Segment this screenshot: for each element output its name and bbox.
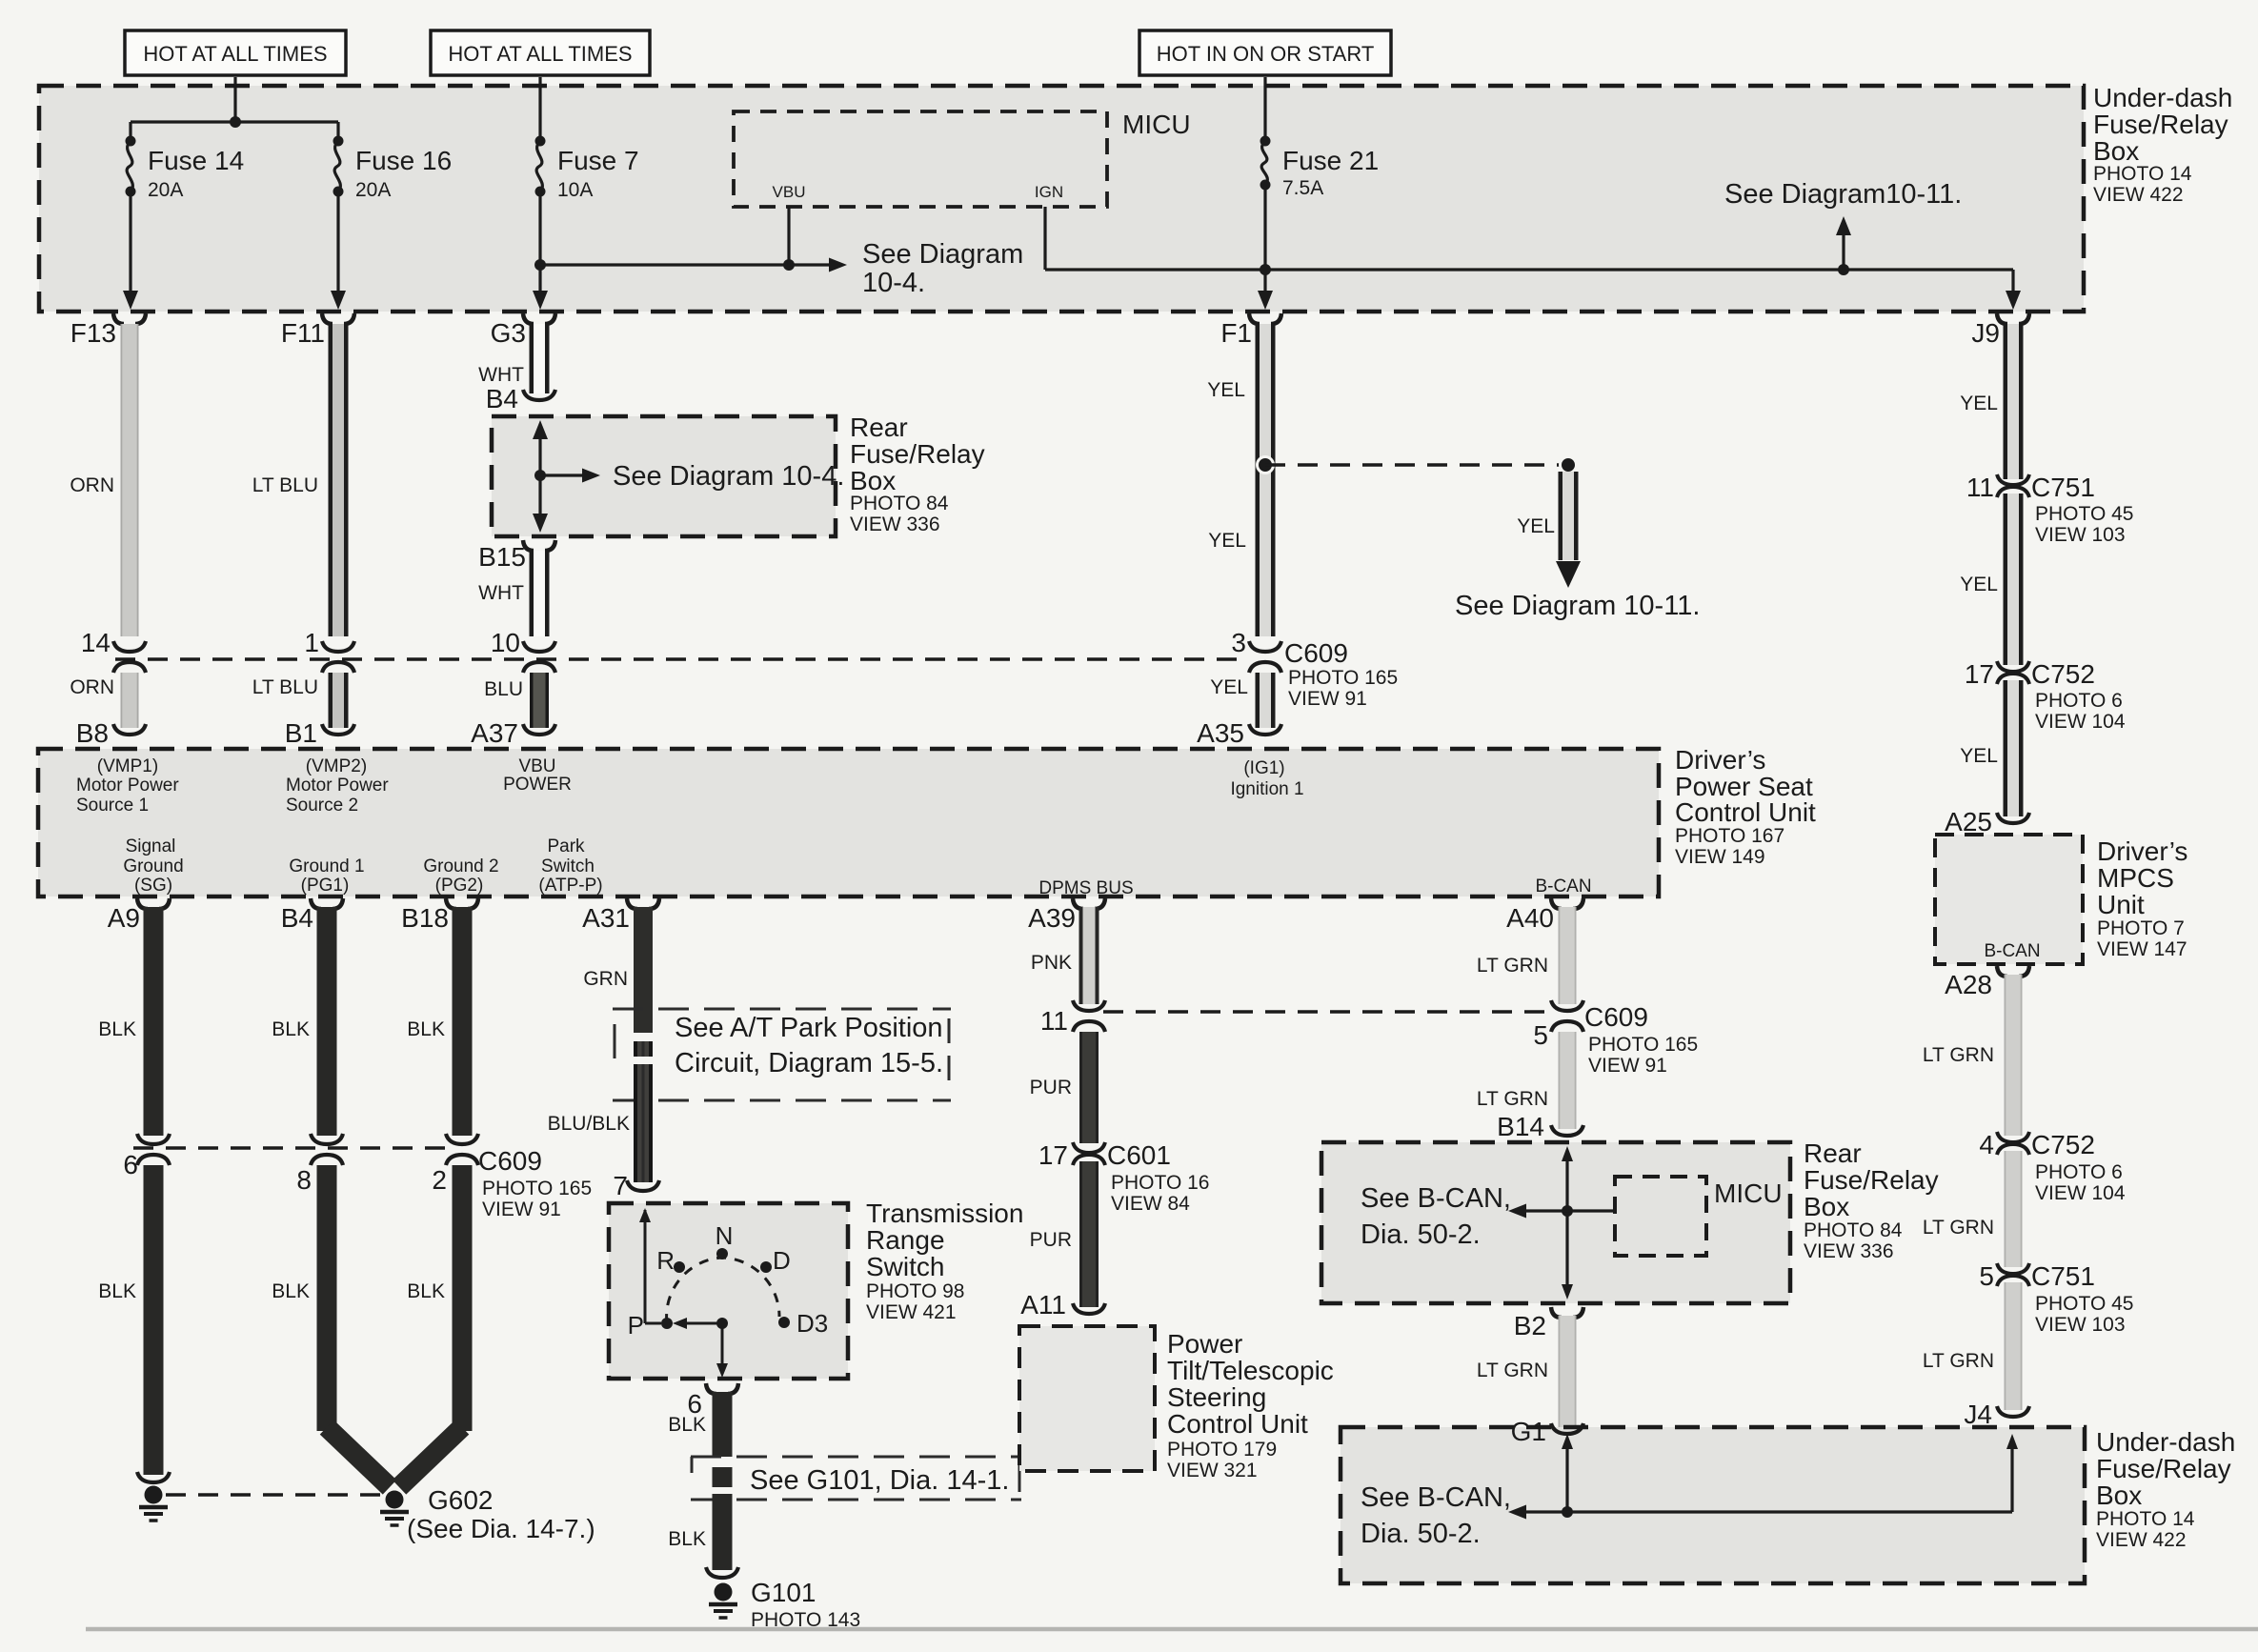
wire bottom box bus [1508,1505,2012,1520]
pin 14 C609 [81,628,146,673]
svg-text:10-4.: 10-4. [862,268,925,298]
TRS contact N [716,1221,734,1259]
svg-text:D3: D3 [796,1309,828,1338]
wire A9 BLK lower [144,1165,164,1475]
see diagram 10-11 note (lower) [1455,591,1700,621]
wire A9 BLK upper [144,907,164,1136]
wire B4 BLK upper [317,907,337,1136]
wire label BLK A9 (upper) [98,1018,136,1040]
wire label WHT (lower) [478,582,524,604]
svg-text:10: 10 [491,628,520,657]
wire G1 arrow (bottom box) [1562,1434,1573,1512]
svg-text:PHOTO 84: PHOTO 84 [850,493,949,514]
svg-text:Range: Range [866,1225,945,1255]
junction YEL arrow tap [1561,457,1577,473]
svg-text:Under-dash: Under-dash [2096,1427,2235,1457]
wire F11 LT BLU upper [329,324,349,636]
svg-text:VIEW 91: VIEW 91 [1288,688,1367,710]
svg-text:2: 2 [432,1165,447,1195]
svg-text:D: D [773,1246,791,1275]
see B-CAN note (bottom box) [1361,1482,1511,1549]
svg-text:BLK: BLK [272,1280,310,1302]
rear fuse/relay box (lower) [1321,1142,1790,1303]
transmission range switch label [866,1199,1023,1323]
svg-text:R: R [656,1246,675,1275]
wire fuse7 tap to VBU [540,263,789,266]
svg-text:See Diagram10-11.: See Diagram10-11. [1724,179,1962,210]
connector C601 pin 17 [1038,1140,1210,1215]
wire hot1 feed stub [233,77,236,122]
svg-text:Ground: Ground [123,856,183,876]
svg-text:VIEW 149: VIEW 149 [1675,846,1765,868]
pin 1 C609 [304,628,354,673]
svg-text:C751: C751 [2031,473,2095,502]
pin function DPMS BUS [1038,878,1133,898]
svg-text:PHOTO 14: PHOTO 14 [2096,1508,2195,1530]
svg-text:Fuse 7: Fuse 7 [557,146,639,175]
pin B18 [401,898,478,933]
see A/T park position circuit note [675,1013,943,1078]
junction fuse7 tap [534,259,546,271]
TRS rotor arc [667,1258,779,1323]
svg-text:11: 11 [1040,1006,1068,1036]
svg-text:PHOTO 6: PHOTO 6 [2035,1161,2123,1183]
wire label YEL (drop) [1517,515,1555,537]
wire rear tap line [1508,1204,1615,1219]
wire F13 ORN upper [121,324,139,636]
svg-text:20A: 20A [148,179,183,201]
svg-text:LT GRN: LT GRN [1923,1217,1994,1239]
power tilt/telescopic label [1167,1329,1334,1481]
wire B18 BLK lower [399,1165,473,1487]
pin B15 [478,540,555,572]
svg-text:G602: G602 [428,1485,494,1515]
wire J9 YEL mid [2004,494,2024,665]
dashed ground link [166,1493,383,1496]
wire MICU VBU lead [787,207,790,265]
wire label WHT (upper) [478,364,524,386]
wire fuse16 lower lead [336,191,339,297]
wire label BLK B4 (upper) [272,1018,310,1040]
fuse F21 [1260,136,1271,191]
svg-text:5: 5 [1533,1020,1548,1050]
pin function B-CAN (MPCS) [1984,941,2040,961]
svg-text:VIEW 336: VIEW 336 [850,514,940,535]
svg-text:PHOTO 167: PHOTO 167 [1675,825,1784,847]
svg-text:BLK: BLK [98,1018,136,1040]
svg-text:Driver’s: Driver’s [1675,745,1765,775]
svg-text:BLK: BLK [407,1018,445,1040]
svg-text:B8: B8 [76,718,109,748]
svg-text:C609: C609 [1284,638,1348,668]
svg-text:PHOTO 7: PHOTO 7 [2097,917,2185,939]
svg-text:VIEW 422: VIEW 422 [2096,1529,2187,1551]
wire label BLK G101 (lower) [668,1528,706,1550]
fuse F16 [333,136,344,197]
driver's power seat control unit box [38,749,1659,897]
wire hot2 feed stub [538,77,541,139]
driver's MPCS unit box [1935,835,2083,964]
wire right LTGRN lower [2005,1282,2023,1410]
MICU label (top) [1122,110,1191,139]
wire A39 PUR upper [1079,1032,1099,1143]
svg-text:Dia. 50-2.: Dia. 50-2. [1361,1519,1481,1549]
see diagram 10-4 note (top box) [862,239,1023,298]
wire right LTGRN mid [2005,1151,2023,1267]
svg-text:Transmission: Transmission [866,1199,1023,1228]
svg-text:Box: Box [850,466,896,495]
wire B18 BLK upper [453,907,473,1136]
wire label PUR (upper) [1030,1077,1072,1098]
MICU label (lower) [1714,1179,1783,1208]
svg-text:B15: B15 [478,542,526,572]
svg-text:YEL: YEL [1207,379,1245,401]
pin B4 rear box [486,384,555,413]
pin A11 [1020,1290,1105,1320]
pin function Ground 1 (PG1) [289,856,364,896]
svg-text:YEL: YEL [1960,574,1998,595]
wire fuse16 upper lead [336,122,339,139]
wire TRS6 BLK upper [713,1392,733,1457]
wire label LT GRN (right lower) [1923,1350,1994,1372]
pin function (VMP2) Motor Power Source 2 [286,756,389,816]
pin B2 [1514,1307,1583,1340]
TRS contact R [656,1246,685,1275]
dashed tap line to YEL arrow [1265,463,1568,466]
svg-text:HOT IN ON OR START: HOT IN ON OR START [1157,42,1375,66]
wire B2 LTGRN [1559,1316,1577,1427]
svg-text:4: 4 [1979,1130,1994,1159]
wire label PNK [1031,952,1072,974]
svg-text:VIEW 421: VIEW 421 [866,1301,957,1323]
svg-text:PHOTO 165: PHOTO 165 [482,1178,592,1199]
svg-text:LT GRN: LT GRN [1923,1350,1994,1372]
wire see-10-11 arrow [1836,216,1851,270]
svg-text:PHOTO 98: PHOTO 98 [866,1280,964,1302]
svg-text:A35: A35 [1197,718,1244,748]
junction rear box (lower) tap [1562,1205,1573,1217]
svg-text:VIEW 103: VIEW 103 [2035,524,2126,546]
svg-text:A37: A37 [471,718,518,748]
fuse F14 value label [148,146,244,201]
wire A39 PUR lower [1079,1161,1099,1307]
wire label GRN [583,968,628,990]
svg-text:BLK: BLK [668,1528,706,1550]
pin F13 [71,313,146,348]
arrow fuse16 to F11 [331,291,346,310]
svg-text:Ground 2: Ground 2 [423,856,498,876]
wire fuse14 lower lead [129,191,131,297]
svg-text:14: 14 [81,628,111,657]
svg-text:PHOTO 16: PHOTO 16 [1111,1172,1209,1194]
wire J4 arrow [2006,1434,2018,1512]
svg-text:Rear: Rear [1804,1138,1862,1168]
svg-text:B4: B4 [281,903,313,933]
svg-text:LT BLU: LT BLU [252,676,318,698]
svg-text:G1: G1 [1511,1417,1546,1446]
svg-text:VIEW 104: VIEW 104 [2035,1182,2126,1204]
arrow fuse14 to F13 [123,291,138,310]
svg-text:Circuit, Diagram 15-5.: Circuit, Diagram 15-5. [675,1048,943,1078]
pin F1 [1220,313,1281,348]
fuse F21 value label [1282,146,1379,199]
svg-text:VIEW 103: VIEW 103 [2035,1314,2126,1336]
svg-text:Ignition 1: Ignition 1 [1230,779,1303,799]
wire label BLU/BLK [548,1113,630,1135]
svg-text:GRN: GRN [583,968,628,990]
svg-text:HOT AT ALL TIMES: HOT AT ALL TIMES [448,42,632,66]
svg-text:Unit: Unit [2097,890,2145,919]
junction rear box tap [534,470,546,481]
svg-text:YEL: YEL [1210,676,1248,698]
wire A39 PNK [1079,907,1099,1004]
wire label ORN (upper) [70,474,114,496]
svg-text:Switch: Switch [866,1252,944,1281]
pin 6 C609 [123,1134,170,1179]
svg-text:PHOTO 165: PHOTO 165 [1588,1034,1698,1056]
svg-text:VIEW 91: VIEW 91 [482,1199,561,1220]
wire fuse21 lower lead [1263,185,1266,297]
pin A39 [1028,898,1105,933]
svg-text:7.5A: 7.5A [1282,177,1323,199]
svg-text:Box: Box [2093,136,2139,166]
wire G101 through-box segment [713,1467,733,1487]
svg-text:A28: A28 [1945,970,1992,999]
svg-text:YEL: YEL [1208,530,1246,552]
svg-text:BLU/BLK: BLU/BLK [548,1113,630,1135]
svg-text:(VMP1): (VMP1) [97,756,158,776]
wire label BLK B18 (upper) [407,1018,445,1040]
svg-text:C609: C609 [1584,1002,1648,1032]
label box HOT AT ALL TIMES (fuse 7 feed) [431,30,650,75]
wire label LT GRN (B14) [1477,1088,1548,1110]
wire label BLK A9 (lower) [98,1280,136,1302]
svg-text:C752: C752 [2031,1130,2095,1159]
power seat unit label [1675,745,1816,868]
svg-text:Fuse 16: Fuse 16 [355,146,452,175]
svg-text:10A: 10A [557,179,593,201]
svg-text:POWER: POWER [503,775,572,795]
svg-text:VIEW 104: VIEW 104 [2035,711,2126,733]
wire label LT BLU (upper) [252,474,318,496]
svg-text:BLK: BLK [98,1280,136,1302]
pin function Park Switch (ATP-P) [538,836,602,896]
wire rear box feed arrows [533,420,548,533]
pin 6 TRS [687,1383,738,1419]
pin function (VMP1) Motor Power Source 1 [76,756,179,816]
see diagram 10-4 note (rear box) [613,461,844,492]
junction fuse21 bus [1260,264,1271,275]
wire F1 YEL upper [1256,324,1276,636]
pin function B-CAN (seat unit) [1535,876,1591,897]
under-dash fuse/relay box label [2093,83,2232,206]
svg-text:Motor Power: Motor Power [286,776,389,796]
svg-text:G3: G3 [491,318,526,348]
svg-text:Fuse/Relay: Fuse/Relay [2096,1454,2231,1483]
rear fuse/relay box (lower) label [1804,1138,1939,1262]
svg-text:A25: A25 [1945,807,1992,836]
svg-text:BLU: BLU [484,678,523,700]
wire label BLK TRS (upper) [668,1414,706,1436]
pin B14 [1497,1112,1583,1141]
svg-text:(IG1): (IG1) [1243,758,1284,778]
svg-text:PHOTO 84: PHOTO 84 [1804,1219,1903,1241]
svg-text:PHOTO 179: PHOTO 179 [1167,1439,1277,1461]
svg-text:YEL: YEL [1517,515,1555,537]
connector C752 pin 4 [1979,1130,2125,1204]
connector C609 (lower) label [478,1146,592,1220]
arrow to J9 [2006,291,2021,310]
wire label BLK B18 (lower) [407,1280,445,1302]
svg-text:(See Dia. 14-7.): (See Dia. 14-7.) [407,1514,595,1543]
junction see-10-11 tap [1838,264,1849,275]
svg-text:7: 7 [613,1171,628,1200]
wire G3 WHT [530,324,550,393]
wire A37 BLU [530,673,549,728]
svg-text:VIEW 91: VIEW 91 [1588,1055,1667,1077]
svg-text:VIEW 84: VIEW 84 [1111,1193,1190,1215]
under-dash fuse/relay box (bottom) [1341,1427,2085,1583]
wire J9 YEL upper [2004,324,2024,479]
wire G101 BLK lower [713,1494,733,1570]
svg-text:See B-CAN,: See B-CAN, [1361,1183,1511,1214]
svg-text:Fuse 21: Fuse 21 [1282,146,1379,175]
svg-text:VBU: VBU [518,756,555,776]
ground G602 label [407,1485,595,1543]
junction bottom box [1562,1506,1573,1518]
ground G602 [380,1491,409,1526]
svg-text:VBU: VBU [773,183,806,201]
svg-text:VIEW 321: VIEW 321 [1167,1460,1258,1481]
svg-text:ORN: ORN [70,676,114,698]
svg-text:LT GRN: LT GRN [1477,1360,1548,1381]
connector C609 line (upper) [115,657,1244,660]
pin B4 (ground 1) [281,898,343,933]
svg-text:Driver’s: Driver’s [2097,836,2187,866]
wire label BLU [484,678,523,700]
pin A31 [582,898,659,933]
under-dash (bottom) label [2096,1427,2235,1551]
connector C751 pin 11 [1966,473,2134,546]
MICU box (top) [734,111,1107,207]
wire B15 WHT [530,551,550,636]
wire B1 LT BLU [329,673,349,728]
arrow fuse7 to G3 [533,291,548,310]
svg-text:PUR: PUR [1030,1077,1072,1098]
svg-text:Tilt/Telescopic: Tilt/Telescopic [1167,1356,1334,1385]
svg-text:VIEW 147: VIEW 147 [2097,938,2187,960]
pin A40 [1506,898,1583,933]
pin function Ground 2 (PG2) [423,856,498,896]
svg-text:PHOTO 14: PHOTO 14 [2093,163,2192,185]
pin J9 [1971,313,2029,348]
svg-text:BLK: BLK [272,1018,310,1040]
wire label YEL (F1 top) [1207,379,1245,401]
connector C609 (pins 11/5) label [1584,1002,1698,1077]
svg-text:Source 1: Source 1 [76,796,149,816]
svg-text:Fuse/Relay: Fuse/Relay [1804,1165,1939,1195]
svg-text:8: 8 [296,1165,312,1195]
svg-text:J9: J9 [1971,318,2000,348]
svg-text:C751: C751 [2031,1261,2095,1291]
see A/T park position circuit box [613,1009,951,1100]
ground G101 label [751,1578,860,1631]
svg-text:PHOTO 6: PHOTO 6 [2035,690,2123,712]
svg-text:B4: B4 [486,384,518,413]
wire label BLK B4 (lower) [272,1280,310,1302]
svg-text:Steering: Steering [1167,1382,1266,1412]
svg-text:Fuse/Relay: Fuse/Relay [850,439,985,469]
svg-text:HOT AT ALL TIMES: HOT AT ALL TIMES [143,42,327,66]
page bottom rule [86,1627,2258,1632]
svg-text:A9: A9 [108,903,140,933]
pin A9 [108,898,170,933]
svg-text:5: 5 [1979,1261,1994,1291]
wire label PUR (lower) [1030,1229,1072,1251]
svg-text:G101: G101 [751,1578,817,1607]
junction F1 YEL tap [1258,457,1274,473]
pin 3 C609 [1231,628,1281,673]
svg-text:YEL: YEL [1960,745,1998,767]
power tilt/telescopic steering control unit box [1019,1326,1155,1471]
svg-text:PNK: PNK [1031,952,1072,974]
wire label YEL (J9 mid) [1960,574,1998,595]
ground G101 [706,1567,738,1618]
svg-text:WHT: WHT [478,364,524,386]
MICU pin IGN label [1035,183,1063,201]
svg-text:C752: C752 [2031,659,2095,689]
svg-text:Dia. 50-2.: Dia. 50-2. [1361,1219,1481,1250]
wire label LT GRN (A28) [1923,1044,1994,1066]
wire fuse7 lower lead [538,191,541,297]
svg-text:Under-dash: Under-dash [2093,83,2232,112]
label box HOT IN ON OR START (fuse 21 feed) [1139,30,1391,75]
pin G1 [1511,1417,1583,1446]
TRS contact D [760,1246,791,1275]
svg-text:A39: A39 [1028,903,1076,933]
svg-text:Control Unit: Control Unit [1167,1409,1308,1439]
TRS contact P [628,1311,673,1340]
svg-text:Power: Power [1167,1329,1242,1359]
svg-text:LT GRN: LT GRN [1923,1044,1994,1066]
svg-text:N: N [716,1221,734,1250]
svg-text:Source 2: Source 2 [286,796,358,816]
svg-text:Fuse 14: Fuse 14 [148,146,244,175]
wire label YEL (J9 upper) [1960,393,1998,414]
svg-text:J4: J4 [1964,1400,1992,1429]
svg-text:(VMP2): (VMP2) [306,756,367,776]
wire hot3 feed stub [1263,77,1266,139]
svg-text:Motor Power: Motor Power [76,776,179,796]
svg-text:MICU: MICU [1714,1179,1783,1208]
svg-text:PHOTO 45: PHOTO 45 [2035,503,2133,525]
wire A40 LTGRN upper [1559,907,1577,1004]
wire label YEL (F1 mid) [1208,530,1246,552]
svg-text:Box: Box [2096,1481,2142,1510]
under-dash fuse/relay box (top) [39,86,2084,312]
MICU pin VBU label [773,183,806,201]
connector C751 pin 5 [1979,1261,2133,1336]
svg-text:Rear: Rear [850,413,908,442]
svg-text:IGN: IGN [1035,183,1063,201]
svg-text:Fuse/Relay: Fuse/Relay [2093,110,2228,139]
pin 10 C609 [491,628,555,673]
see B-CAN note (rear box) [1361,1183,1511,1250]
fuse F16 value label [355,146,452,201]
transmission range switch box [609,1203,848,1379]
svg-text:B-CAN: B-CAN [1984,941,2040,961]
svg-text:LT BLU: LT BLU [252,474,318,496]
